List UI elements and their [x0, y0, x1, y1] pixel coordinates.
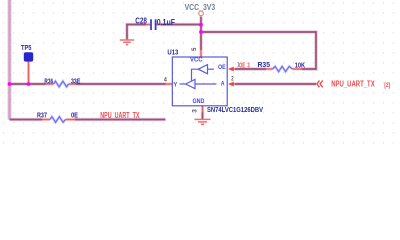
svg-text:0E: 0E [71, 111, 78, 120]
svg-text:TP5: TP5 [21, 45, 31, 52]
svg-text:10K: 10K [295, 60, 306, 69]
svg-text:OE_3: OE_3 [239, 62, 250, 69]
svg-text:GND: GND [193, 99, 205, 105]
svg-text:R37: R37 [37, 111, 47, 120]
svg-text:0.1uF: 0.1uF [157, 18, 175, 27]
svg-text:OE: OE [218, 65, 226, 71]
svg-text:VCC: VCC [190, 58, 203, 64]
svg-text:SN74LVC1G126DBV: SN74LVC1G126DBV [207, 107, 263, 114]
svg-text:C28: C28 [135, 17, 147, 26]
svg-text:A: A [221, 82, 225, 88]
svg-text:R35: R35 [258, 60, 271, 69]
svg-text:U13: U13 [167, 50, 178, 57]
svg-text:R36: R36 [44, 77, 53, 86]
svg-text:VCC_3V3: VCC_3V3 [185, 3, 216, 12]
svg-text:33E: 33E [71, 77, 80, 86]
svg-text:NPU_UART_TX: NPU_UART_TX [331, 80, 375, 89]
svg-text:[2]: [2] [384, 82, 390, 89]
svg-text:NPU_UART_TX: NPU_UART_TX [100, 111, 140, 120]
svg-text:Y: Y [174, 82, 178, 88]
